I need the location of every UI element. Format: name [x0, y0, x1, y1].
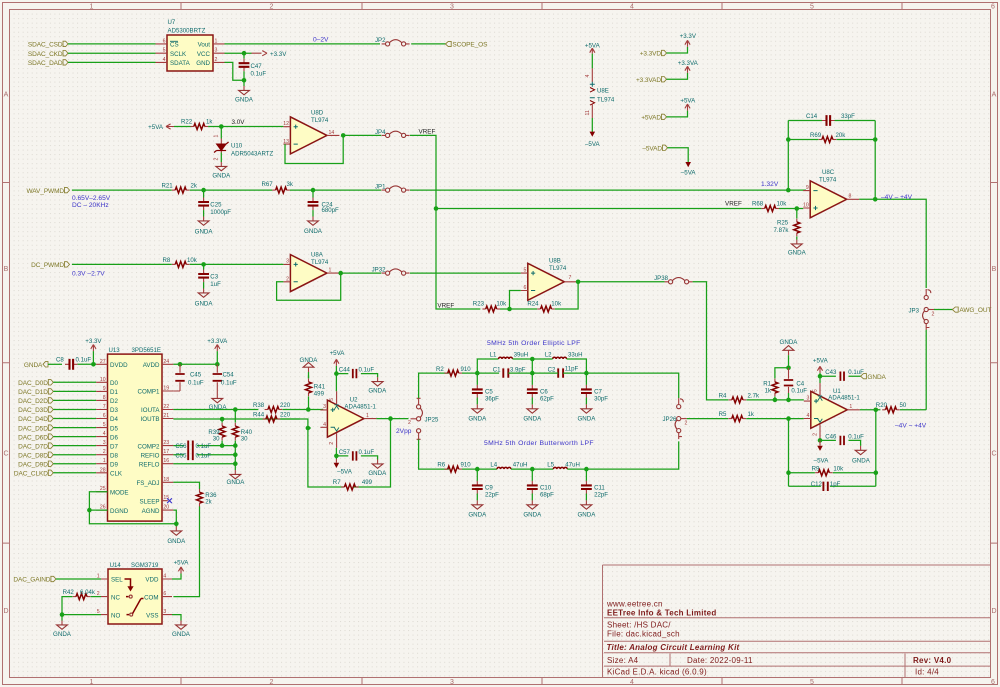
svg-text:23: 23 [163, 440, 169, 446]
svg-text:4: 4 [163, 57, 166, 63]
svg-text:U13: U13 [109, 347, 121, 354]
svg-text:JP38: JP38 [654, 275, 669, 282]
svg-text:19: 19 [163, 386, 169, 392]
hier label DAC_D2D [18, 398, 53, 405]
hier label DAC_D0D [18, 380, 53, 387]
svg-text:TL974: TL974 [597, 96, 615, 103]
svg-text:GNDA: GNDA [227, 479, 246, 486]
svg-text:2: 2 [685, 421, 688, 427]
svg-text:C14: C14 [806, 113, 818, 120]
svg-text:5: 5 [163, 48, 166, 54]
svg-text:TL974: TL974 [311, 117, 329, 124]
svg-text:C45: C45 [190, 372, 202, 379]
power -5VA down arrow [681, 162, 697, 177]
capacitor C44 0.1uF [336, 367, 377, 379]
svg-text:33pF: 33pF [841, 113, 855, 120]
svg-text:3: 3 [286, 259, 289, 265]
junction R69 right [873, 137, 878, 142]
ground GNDA C44 [368, 377, 387, 394]
svg-text:6: 6 [524, 285, 527, 291]
svg-text:SCOPE_OS: SCOPE_OS [452, 42, 488, 49]
ground GNDA U14 [172, 621, 191, 638]
svg-text:3: 3 [807, 395, 810, 401]
wire Vout to JP2 [225, 43, 381, 45]
capacitor C12 1pF [811, 481, 841, 491]
svg-text:D7: D7 [110, 443, 118, 450]
power +3.3VA arrow [678, 60, 699, 73]
svg-text:2k: 2k [205, 499, 212, 506]
svg-text:DAC_D2D: DAC_D2D [18, 398, 48, 405]
svg-text:GNDA: GNDA [468, 415, 487, 422]
zener U10 ADR5043ARTZ [214, 127, 274, 163]
svg-text:5: 5 [813, 389, 819, 392]
junction C45 [178, 362, 183, 367]
hier label DC_PWMD [31, 262, 69, 269]
svg-text:7.87k: 7.87k [774, 227, 790, 234]
wire JP38 down to R4 [693, 282, 729, 400]
capacitor C3 1uF [198, 264, 221, 288]
svg-text:2.7k: 2.7k [748, 392, 760, 399]
svg-text:R1: R1 [763, 381, 771, 388]
hier label +5VAD [641, 114, 666, 121]
svg-text:DAC_D7D: DAC_D7D [18, 443, 48, 450]
svg-text:D5: D5 [110, 425, 118, 432]
svg-text:C12: C12 [811, 481, 823, 488]
power -5VA down U2 [334, 456, 353, 476]
wire L1 to node B [513, 359, 533, 373]
capacitor C6 62pF [527, 373, 554, 404]
svg-text:GNDA: GNDA [867, 374, 886, 381]
wire C1 to node B [508, 372, 532, 374]
svg-text:910: 910 [461, 366, 472, 373]
wire R23 to R24 [500, 308, 537, 310]
svg-text:C56: C56 [175, 443, 187, 450]
svg-text:WAV_PWMD: WAV_PWMD [27, 188, 65, 195]
svg-text:R6: R6 [437, 461, 445, 468]
svg-text:28: 28 [100, 467, 106, 473]
svg-text:MODE: MODE [110, 489, 129, 496]
svg-text:33uH: 33uH [568, 352, 583, 359]
svg-text:FS_ADJ: FS_ADJ [136, 480, 159, 487]
wire L2 to node C [532, 359, 586, 373]
resistor R5 1k [719, 411, 755, 422]
svg-text:+5VA: +5VA [148, 124, 164, 131]
svg-text:13: 13 [283, 139, 289, 145]
svg-text:+3.3VA: +3.3VA [678, 60, 699, 67]
svg-text:10k: 10k [833, 465, 844, 472]
svg-text:5: 5 [810, 679, 814, 686]
wire feedback left rail [787, 121, 789, 191]
resistor R67 3k [262, 181, 294, 193]
svg-text:2k: 2k [191, 183, 198, 190]
wire R24 to U8B out [555, 282, 578, 309]
svg-text:Vout: Vout [198, 42, 211, 49]
IC U7 AD5300BRTZ [156, 19, 225, 71]
wire U8D out to JP4 [343, 134, 381, 136]
svg-text:2: 2 [270, 679, 274, 686]
svg-text:22pF: 22pF [594, 492, 608, 499]
svg-text:D8: D8 [110, 452, 118, 459]
svg-text:U8E: U8E [597, 87, 609, 94]
resistor R4 2.7k [719, 392, 760, 403]
svg-text:DAC_D9D: DAC_D9D [18, 461, 48, 468]
svg-text:D4: D4 [110, 416, 118, 423]
wire VREF to R68 [436, 208, 761, 210]
svg-text:Id: 4/4: Id: 4/4 [915, 668, 939, 677]
ground GNDA C54 [209, 394, 228, 411]
op-amp U8D TL974 [283, 110, 339, 154]
svg-text:DAC_CLKD: DAC_CLKD [14, 471, 48, 478]
svg-text:0.1uF: 0.1uF [188, 379, 204, 386]
hier label DAC_D3D [18, 407, 53, 414]
svg-text:11pF: 11pF [565, 366, 579, 373]
svg-text:AVDD: AVDD [143, 362, 160, 369]
wire JP32 to U8B pin5 [410, 272, 521, 274]
REFIO row C55 [173, 452, 235, 459]
hier label SDAC_DAD [28, 60, 68, 67]
svg-text:GNDA: GNDA [852, 458, 871, 465]
junction node E [530, 467, 535, 472]
svg-text:3: 3 [103, 440, 106, 446]
svg-text:DAC_D8D: DAC_D8D [18, 452, 48, 459]
wire -5VAD [668, 148, 689, 162]
svg-text:AGND: AGND [142, 508, 160, 515]
svg-text:1k: 1k [206, 119, 213, 126]
resistor R23 10k [473, 301, 507, 312]
resistor R25 7.87k [774, 209, 800, 240]
power +5VA arrow [680, 98, 696, 111]
svg-text:5: 5 [103, 422, 106, 428]
wire R67 to JP1 [290, 189, 381, 191]
junction R41/pin3 [306, 407, 311, 412]
svg-text:R44: R44 [253, 412, 265, 419]
svg-text:File: dac.kicad_sch: File: dac.kicad_sch [607, 630, 680, 639]
wire MODE DGND tie [89, 492, 176, 524]
svg-text:B: B [992, 266, 997, 273]
svg-text:10k: 10k [187, 257, 198, 264]
svg-text:5: 5 [524, 267, 527, 273]
wire L4 to node E [511, 468, 553, 470]
jumper JP32 [372, 267, 410, 276]
junction U2 out [388, 416, 393, 421]
svg-text:1: 1 [214, 135, 220, 138]
svg-text:DAC_GAIND: DAC_GAIND [13, 577, 50, 584]
ground GNDA C24 [304, 210, 323, 235]
svg-text:1: 1 [329, 268, 332, 274]
svg-text:DAC_D6D: DAC_D6D [18, 434, 48, 441]
svg-text:JP2: JP2 [375, 37, 386, 44]
svg-text:C57: C57 [339, 449, 351, 456]
capacitor C10 68pF [527, 469, 554, 500]
power +5VA arrow U14 [174, 560, 190, 574]
svg-text:1: 1 [97, 574, 100, 580]
junction NO gnd [60, 612, 65, 617]
svg-text:1: 1 [215, 38, 218, 44]
svg-text:DAC_D1D: DAC_D1D [18, 389, 48, 396]
svg-text:SDATA: SDATA [170, 60, 191, 67]
svg-text:22: 22 [163, 404, 169, 410]
svg-text:3: 3 [215, 48, 218, 54]
wire REFLO row [173, 463, 235, 465]
svg-text:SEL: SEL [111, 577, 123, 584]
svg-text:C3: C3 [210, 274, 218, 281]
svg-text:3.0V: 3.0V [232, 119, 246, 126]
svg-text:C46: C46 [825, 433, 837, 440]
hier label WAV_PWMD [27, 187, 70, 194]
svg-text:910: 910 [461, 461, 472, 468]
svg-text:ADA4851-1: ADA4851-1 [344, 403, 376, 410]
junction C55 right [233, 452, 238, 457]
resistor R21 2k [162, 183, 198, 193]
resistor R69 20k [788, 132, 875, 142]
svg-text:EETree Info & Tech Limited: EETree Info & Tech Limited [607, 609, 716, 618]
ground GNDA C46 [852, 446, 871, 465]
resistor R39 50 [208, 419, 225, 442]
wire R5 to U1 pin4 [746, 418, 804, 420]
wire SDAC_CK [68, 52, 156, 54]
svg-text:2: 2 [270, 4, 274, 11]
junction node C [584, 371, 589, 376]
svg-text:30pF: 30pF [594, 396, 608, 403]
svg-text:R38: R38 [253, 402, 265, 409]
svg-text:22pF: 22pF [485, 492, 499, 499]
svg-text:JP32: JP32 [372, 267, 387, 274]
junction VREF branch [434, 206, 439, 211]
svg-text:20k: 20k [836, 132, 847, 139]
junction C3 [201, 262, 206, 267]
svg-text:U8D: U8D [311, 110, 324, 117]
svg-text:U14: U14 [110, 562, 122, 569]
svg-text:SDAC_CSD: SDAC_CSD [28, 42, 63, 49]
svg-text:Sheet: /HS DAC/: Sheet: /HS DAC/ [607, 621, 671, 630]
svg-text:3PD5651E: 3PD5651E [132, 347, 161, 354]
svg-text:68pF: 68pF [540, 492, 554, 499]
svg-text:18: 18 [163, 477, 169, 483]
wire REF ground rail [234, 446, 236, 470]
svg-text:0.1uF: 0.1uF [196, 452, 212, 459]
svg-text:6.04k: 6.04k [80, 589, 96, 596]
capacitor C8 0.1uF [56, 357, 91, 370]
svg-text:GNDA: GNDA [468, 511, 487, 518]
svg-text:R21: R21 [162, 183, 174, 190]
svg-text:2: 2 [214, 158, 220, 161]
svg-text:R7: R7 [333, 479, 341, 486]
svg-text:+3.3V: +3.3V [270, 51, 287, 58]
svg-text:3: 3 [163, 609, 166, 615]
wire FS_ADJ to R36 [173, 482, 199, 489]
svg-text:47uH: 47uH [565, 461, 580, 468]
power +5VA arrow U1 [813, 357, 829, 383]
ground GNDA U10 [212, 162, 231, 180]
hier label DAC_CLKD [14, 470, 53, 477]
svg-text:14: 14 [329, 130, 335, 136]
svg-text:0.1uF: 0.1uF [76, 357, 92, 364]
inductor L5 47uH [547, 461, 580, 469]
junction node F [584, 467, 589, 472]
svg-text:VSS: VSS [146, 612, 158, 619]
svg-text:VREF: VREF [725, 200, 742, 207]
jumper JP25 [408, 398, 439, 439]
resistor R42 6.04k [63, 589, 96, 599]
svg-text:5: 5 [810, 4, 814, 11]
wire R4 to U1 pin3 [746, 399, 803, 401]
ground GNDA above R1 [780, 339, 799, 368]
junction VCC/C47 [242, 51, 247, 56]
svg-text:+5VA: +5VA [174, 560, 190, 567]
svg-text:D: D [3, 608, 8, 615]
power unit U8E TL974 [585, 42, 615, 147]
svg-text:GNDA: GNDA [24, 362, 43, 369]
svg-text:1000pF: 1000pF [210, 209, 231, 216]
capacitor C45 0.1uF [173, 364, 203, 391]
wire WAV_PWMD to R21 [72, 189, 172, 191]
wire VSS to ground [172, 615, 181, 621]
hier label DAC_D7D [18, 443, 53, 450]
svg-text:SGM3719: SGM3719 [131, 562, 159, 569]
resistor R9 10k [812, 465, 845, 475]
svg-text:21: 21 [163, 413, 169, 419]
wire JP2 to SCOPE_OS [411, 43, 445, 45]
svg-text:C: C [991, 451, 996, 458]
wire DAC_GAIND to SEL [56, 578, 101, 580]
wire R6 to L4 [462, 468, 497, 470]
svg-text:L1: L1 [490, 352, 497, 359]
svg-text:2: 2 [329, 442, 335, 445]
resistor R1 1k [763, 368, 788, 400]
global label SCOPE_OS [445, 41, 488, 48]
jumper JP2 [375, 37, 410, 46]
svg-text:C: C [3, 451, 8, 458]
junction U8A out [338, 271, 343, 276]
svg-text:REFIO: REFIO [141, 452, 160, 459]
svg-text:R42: R42 [63, 589, 75, 596]
svg-text:VREF: VREF [437, 302, 454, 309]
wire DC_PWMD to R8 [72, 263, 172, 265]
hier label SDAC_CKD [28, 51, 68, 58]
svg-text:COMP2: COMP2 [137, 443, 160, 450]
resistor R40 50 [232, 410, 252, 443]
svg-text:16: 16 [163, 458, 169, 464]
svg-text:GNDA: GNDA [167, 538, 186, 545]
svg-text:5: 5 [329, 398, 335, 401]
ground GNDA C3 [195, 282, 214, 307]
svg-text:+5VA: +5VA [813, 357, 829, 364]
svg-text:CLK: CLK [110, 471, 123, 478]
junction C43 [818, 374, 823, 379]
svg-text:D1: D1 [110, 389, 118, 396]
svg-text:ADA4851-1: ADA4851-1 [828, 395, 860, 402]
svg-text:U8A: U8A [311, 251, 324, 258]
svg-text:+3.3V: +3.3V [85, 338, 102, 345]
ground GNDA C9 [468, 500, 487, 518]
svg-text:–5VA: –5VA [337, 469, 353, 476]
wire +3.3VD [667, 47, 688, 53]
svg-text:GNDA: GNDA [212, 173, 231, 180]
ground GNDA C57 [368, 460, 387, 477]
svg-text:3k: 3k [287, 181, 294, 188]
wire R20 to JP3 [900, 409, 926, 411]
svg-text:30: 30 [241, 435, 248, 442]
svg-text:NO: NO [111, 612, 120, 619]
hier label DAC_D6D [18, 434, 53, 441]
svg-text:VREF: VREF [419, 129, 436, 136]
junction U1 pin4 feedback [786, 416, 791, 421]
wire node C to JP26 [586, 373, 678, 398]
junction +3.3V DVDD [91, 362, 96, 367]
svg-text:0.1uF: 0.1uF [196, 443, 212, 450]
wire U8B out to JP38 [577, 281, 665, 283]
svg-text:GNDA: GNDA [53, 631, 72, 638]
capacitor C43 0.1uF [820, 369, 864, 381]
hier label SDAC_CSD [28, 41, 68, 48]
svg-text:8: 8 [103, 395, 106, 401]
svg-text:C1: C1 [493, 367, 501, 374]
svg-text:24: 24 [163, 359, 169, 365]
resistor R24 10k [527, 301, 562, 312]
svg-text:C8: C8 [56, 357, 64, 364]
svg-text:REFLO: REFLO [139, 461, 160, 468]
svg-text:0.3V –2.7V: 0.3V –2.7V [72, 271, 105, 278]
junction C24 [311, 188, 316, 193]
ground GNDA R41 top [300, 357, 319, 379]
hier label GNDA left [24, 362, 48, 369]
hier label -5VAD [642, 145, 667, 152]
junction AGND corner [174, 522, 179, 527]
resistor R68 10k [752, 200, 787, 211]
svg-text:220: 220 [280, 412, 291, 419]
svg-text:3: 3 [323, 404, 326, 410]
wire R38 to U2 pin3 [282, 409, 323, 411]
wire +3.3VAD [667, 73, 688, 79]
svg-text:U8C: U8C [822, 169, 835, 176]
hier label DAC_D4D [18, 416, 53, 423]
junction R23/R24/pin6 [507, 307, 512, 312]
svg-text:10k: 10k [551, 301, 562, 308]
svg-text:6: 6 [163, 38, 166, 44]
capacitor C1 3.9pF [493, 367, 526, 378]
svg-text:0.65V–2.65V: 0.65V–2.65V [72, 195, 111, 202]
svg-text:GNDA: GNDA [780, 339, 799, 346]
svg-text:JP26: JP26 [663, 416, 678, 423]
jumper JP38 [654, 275, 692, 284]
svg-text:SDAC_DAD: SDAC_DAD [28, 60, 63, 67]
svg-text:499: 499 [362, 479, 373, 486]
svg-text:VDD: VDD [145, 577, 159, 584]
capacitor C24 680pF [308, 190, 339, 214]
svg-text:R23: R23 [473, 301, 485, 308]
svg-text:GNDA: GNDA [235, 97, 254, 104]
svg-text:U10: U10 [231, 143, 243, 150]
svg-text:+3.3VAD: +3.3VAD [636, 77, 661, 84]
wire pin6 riser [510, 291, 521, 310]
svg-text:GNDA: GNDA [523, 511, 542, 518]
power +3.3V arrow U13 [85, 338, 102, 364]
junction node D [475, 467, 480, 472]
svg-text:+3.3VA: +3.3VA [207, 338, 228, 345]
svg-text:GNDA: GNDA [577, 511, 596, 518]
svg-text:DVDD: DVDD [110, 362, 128, 369]
svg-text:–4V ~ +4V: –4V ~ +4V [895, 422, 927, 429]
svg-text:ADR5043ARTZ: ADR5043ARTZ [231, 151, 273, 158]
hier label DAC_D8D [18, 452, 53, 459]
junction U8D out [341, 133, 346, 138]
IC U13 3PD5651E [96, 347, 173, 521]
svg-text:R5: R5 [719, 411, 727, 418]
wire U8D feedback [285, 135, 343, 163]
svg-text:GNDA: GNDA [523, 415, 542, 422]
svg-text:–5VA: –5VA [681, 170, 697, 177]
svg-text:10: 10 [803, 203, 809, 209]
